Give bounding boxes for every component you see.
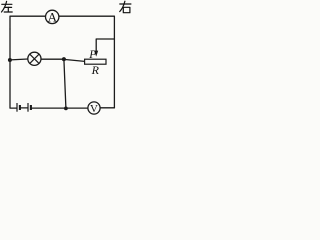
- wire battery to voltmeter: [32, 107, 88, 109]
- wire lamp to junction: [41, 58, 64, 60]
- voltmeter V: [88, 102, 100, 114]
- battery cell 2 long plate: [27, 103, 29, 112]
- wire middle vertical: [64, 59, 66, 108]
- battery cell 2 short plate: [30, 105, 32, 110]
- wire junction to rheostat: [64, 59, 85, 61]
- ammeter A: [46, 10, 59, 23]
- svg-text:A: A: [48, 9, 58, 24]
- rheostat R body: [85, 59, 106, 64]
- wire rheostat slider feed: [96, 39, 114, 51]
- node junction mid bottom: [64, 107, 68, 111]
- label ZUO (left) hanzi: [2, 1, 13, 12]
- background: [0, 0, 132, 121]
- battery cell 1 long plate: [16, 103, 18, 112]
- wire left vertical lower: [10, 29, 17, 108]
- wire lamp row left: [10, 58, 28, 61]
- wire voltmeter to corner: [100, 107, 114, 109]
- label YOU (right) hanzi: [120, 1, 131, 13]
- svg-text:P: P: [88, 49, 96, 61]
- rheostat slider arrowhead: [94, 51, 98, 57]
- svg-text:V: V: [90, 103, 98, 115]
- battery cell 1 short plate: [19, 105, 21, 110]
- wire battery middle: [21, 107, 28, 109]
- node junction left: [8, 58, 12, 62]
- svg-text:R: R: [91, 63, 100, 77]
- lamp: [28, 52, 41, 65]
- wire top-left segment: [10, 16, 46, 29]
- node junction mid top: [62, 57, 66, 61]
- wire top-right segment: [59, 16, 115, 108]
